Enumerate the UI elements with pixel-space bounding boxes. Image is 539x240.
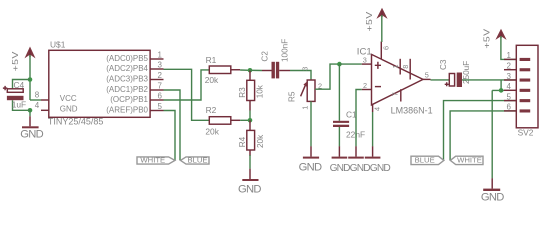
svg-text:8: 8 [401, 65, 410, 69]
label U$1 [50, 40, 66, 50]
svg-text:(AREF)PB0: (AREF)PB0 [106, 106, 148, 115]
label GND (bottom right) [481, 192, 504, 204]
op-amp pin 1 (gain) [399, 59, 401, 75]
ground symbol (R4) [242, 169, 258, 181]
pin name (ADC0)PB5 [106, 54, 148, 63]
wire +5V to pin 6 [381, 15, 383, 42]
label R1 [206, 55, 217, 65]
svg-text:1: 1 [158, 51, 163, 60]
ground symbol (C1) [332, 146, 348, 158]
svg-text:R5: R5 [287, 91, 296, 102]
capacitor C4 [3, 86, 24, 100]
flag WHITE (left) [137, 156, 175, 165]
resistor R2 [209, 117, 240, 125]
pin name (ADC2)PB4 [106, 64, 148, 73]
svg-text:4: 4 [35, 101, 40, 110]
capacitor C2 [262, 62, 290, 79]
pin name (ADC1)PB2 [106, 85, 148, 94]
wire op-amp output to C3 [431, 79, 450, 81]
wire pin4 node to SV2 [501, 89, 504, 91]
pin 6 stub [150, 99, 163, 101]
svg-text:C3: C3 [439, 59, 448, 70]
pin number 1 [158, 51, 163, 60]
svg-text:+5V: +5V [483, 28, 493, 48]
svg-text:R3: R3 [238, 87, 247, 98]
wire +5V vertical rail (left) [29, 55, 31, 100]
resistor R1 [209, 66, 240, 74]
svg-text:GNDGNDGND: GNDGNDGND [330, 163, 391, 174]
pin number 2 [158, 71, 163, 80]
wire C4 bottom lead [13, 100, 31, 110]
svg-text:+5V: +5V [11, 51, 21, 71]
svg-text:3: 3 [158, 61, 163, 70]
node junction C4 top [28, 77, 33, 82]
pin 8 stub [41, 99, 49, 101]
svg-text:100nF: 100nF [281, 39, 290, 62]
wire C1 to ground [338, 127, 340, 146]
label TINY25/45/85 [48, 117, 104, 127]
label GND x3 (C1, IC1 pin2, IC1 pin4 grounds) [330, 163, 391, 174]
node junction R1/R3/C2 [248, 68, 253, 73]
node junction C1/op-amp input [337, 62, 342, 67]
svg-text:1: 1 [391, 65, 400, 69]
pin number 2 (IC1) [363, 81, 367, 90]
wire branch to pin 4 node [492, 80, 501, 91]
svg-text:C2: C2 [261, 51, 270, 62]
svg-text:6: 6 [158, 92, 163, 101]
label C4 [14, 80, 25, 90]
wire C2 to R5 [290, 71, 311, 81]
label 250uF (rotated) [462, 61, 471, 84]
SV2 pin 6 [504, 109, 530, 112]
op-amp pin 6 stub [380, 42, 382, 60]
op-amp IC1 triangle [372, 54, 424, 105]
supply symbol +5V (left) [25, 47, 36, 59]
ground symbol (IC1 pin2) [348, 146, 364, 158]
connector SV2 box [516, 45, 538, 128]
svg-text:C4: C4 [14, 80, 25, 90]
svg-text:3: 3 [363, 55, 367, 64]
resistor R4 [247, 120, 255, 156]
svg-text:WHITE: WHITE [140, 156, 165, 165]
svg-text:2: 2 [158, 71, 163, 80]
resistor R3 [247, 70, 255, 110]
op-amp pin 7 (bypass) [400, 89, 402, 101]
wire node to C2 [250, 69, 262, 71]
pin number 3 (SV2) [507, 72, 512, 81]
node junction SV2 pin 4 [499, 88, 504, 93]
label GND (R4) [238, 183, 261, 195]
label 10k (rotated) [255, 84, 264, 98]
svg-text:R4: R4 [238, 136, 247, 147]
pin name (OCP)PB1 [110, 95, 148, 104]
pin number 8 [35, 91, 40, 100]
svg-text:BLUE: BLUE [415, 156, 435, 165]
wire pin5 to WHITE flag [164, 111, 176, 161]
label LM386N-1 [391, 105, 433, 115]
label 100nF (rotated) [281, 39, 290, 62]
ground symbol (bottom right) [483, 178, 500, 191]
svg-text:1: 1 [301, 106, 310, 110]
op-amp minus mark [375, 86, 381, 88]
svg-text:BLUE: BLUE [187, 156, 207, 165]
pin number 5 (IC1) [425, 71, 429, 80]
wire pin4 to ground [372, 112, 374, 146]
wire VCC pin 8 [30, 99, 41, 101]
pin number 2 (R5) [318, 82, 322, 91]
op-amp pin 3 stub [362, 63, 372, 65]
svg-text:SV2: SV2 [518, 128, 534, 138]
wire pin2 to ground [356, 90, 362, 147]
supply symbol +5V (right) [495, 29, 506, 40]
pin number 6 (SV2) [507, 103, 512, 112]
wire R4 to ground [249, 155, 251, 169]
svg-text:R1: R1 [206, 55, 217, 65]
label R4 (rotated) [238, 136, 247, 147]
pin name (AREF)PB0 [106, 106, 148, 115]
wire WHITE flag to SV2 pin 6 [450, 111, 516, 160]
svg-text:R2: R2 [206, 105, 217, 115]
supply symbol +5V (op-amp) [376, 8, 387, 19]
svg-text:VCC: VCC [60, 94, 77, 103]
pin number 1 (IC1, rotated) [391, 65, 400, 69]
wire GND drop (left) [29, 110, 31, 116]
svg-text:8: 8 [35, 91, 40, 100]
wire pin7 to BLUE flag [164, 90, 181, 160]
pin number 3 (R5, rotated) [301, 67, 310, 71]
wire node to op-amp pin3 [339, 63, 361, 65]
pin 1 stub [150, 58, 163, 60]
label +5V (right, rotated) [483, 28, 493, 48]
svg-text:4: 4 [507, 82, 512, 91]
wire +5V to SV2 pin 1 [501, 36, 516, 59]
label R3 (rotated) [238, 87, 247, 98]
pin number 7 (IC1, rotated) [391, 92, 400, 96]
svg-text:6: 6 [382, 46, 391, 50]
svg-text:GND: GND [60, 104, 78, 113]
label 20k (R2) [205, 126, 219, 136]
pin number 1 (SV2) [507, 51, 512, 60]
wire node to C1 [338, 64, 340, 121]
pin number 5 (SV2) [507, 92, 512, 101]
op-amp pin 5 stub [423, 78, 431, 80]
label GND (left) [20, 129, 43, 141]
flag WHITE (right) [450, 156, 483, 165]
IC U$1 box [49, 50, 150, 117]
wire pin3 to R2 [164, 69, 210, 120]
wire R5 bottom to ground [310, 101, 312, 146]
node junction R2/R3/R4 [248, 118, 253, 123]
svg-text:WHITE: WHITE [457, 156, 482, 165]
pin 7 stub [150, 89, 163, 91]
svg-text:U$1: U$1 [50, 40, 66, 50]
pin number 7 [158, 82, 163, 91]
svg-text:6: 6 [507, 103, 512, 112]
wire BLUE flag to SV2 pin 5 [444, 101, 517, 161]
op-amp pin 4 stub [372, 104, 374, 112]
svg-text:(ADC0)PB5: (ADC0)PB5 [106, 54, 148, 63]
svg-text:+5V: +5V [365, 11, 375, 31]
SV2 pin 3 [504, 79, 530, 82]
wire R5 wiper to op-amp input [315, 64, 339, 89]
label 20k (R1) [205, 75, 219, 85]
svg-text:3: 3 [507, 72, 512, 81]
pin 2 stub [150, 79, 163, 81]
pin number 2 (SV2) [507, 62, 512, 71]
pin number 3 (IC1) [363, 55, 367, 64]
pin number 8 (IC1, rotated) [401, 65, 410, 69]
svg-text:(ADC2)PB4: (ADC2)PB4 [106, 64, 148, 73]
svg-text:7: 7 [158, 82, 163, 91]
wire R2 to node [240, 119, 250, 121]
svg-text:4: 4 [372, 107, 381, 111]
op-amp pin 2 stub [362, 89, 372, 91]
pin 3 stub [150, 68, 163, 70]
svg-text:GND: GND [481, 192, 504, 204]
label C3 (rotated) [439, 59, 448, 70]
label SV2 [518, 128, 534, 138]
svg-text:LM386N-1: LM386N-1 [391, 105, 433, 115]
SV2 pin 5 [504, 99, 530, 102]
pin number 4 (IC1, rotated) [372, 107, 381, 111]
label IC1 [357, 46, 372, 57]
label 1uF [12, 99, 26, 109]
svg-text:3: 3 [301, 67, 310, 71]
label C2 (rotated) [261, 51, 270, 62]
svg-text:TINY25/45/85: TINY25/45/85 [48, 117, 104, 127]
pin number 3 [158, 61, 163, 70]
svg-text:GND: GND [20, 129, 43, 141]
svg-text:10k: 10k [255, 84, 264, 98]
svg-text:(OCP)PB1: (OCP)PB1 [110, 95, 148, 104]
pin number 1 (R5, rotated) [301, 106, 310, 110]
label +5V (op-amp, rotated) [365, 11, 375, 31]
svg-text:2: 2 [507, 62, 512, 71]
potentiometer R5 [301, 80, 315, 101]
svg-text:20k: 20k [205, 75, 219, 85]
ground symbol (R5) [303, 146, 319, 158]
svg-text:20k: 20k [205, 126, 219, 136]
svg-text:1uF: 1uF [12, 99, 26, 109]
SV2 pin 2 [504, 68, 530, 71]
svg-text:2: 2 [363, 81, 367, 90]
op-amp pin 8 (gain) [409, 59, 411, 80]
wire C4 top lead [13, 80, 31, 89]
label 20k (R4, rotated) [256, 134, 265, 148]
node junction C4 bottom [28, 108, 33, 113]
svg-text:1: 1 [507, 51, 512, 60]
flag BLUE (right) [411, 156, 444, 165]
SV2 pin 4 [504, 89, 530, 92]
pin name VCC [60, 94, 77, 103]
flag BLUE (left) [181, 156, 210, 165]
op-amp plus mark [375, 62, 381, 69]
capacitor C1 [333, 121, 349, 127]
wire R1 to node [240, 69, 250, 71]
svg-text:GND: GND [238, 183, 261, 195]
pin 4 stub (IC left) [41, 109, 49, 111]
pin number 4 (SV2) [507, 82, 512, 91]
pin number 6 [158, 92, 163, 101]
label R5 (rotated) [287, 91, 296, 102]
label GND (R5) [299, 162, 322, 174]
svg-text:20k: 20k [256, 134, 265, 148]
svg-text:GND: GND [299, 162, 322, 174]
label R2 [206, 105, 217, 115]
SV2 pin 1 [504, 58, 530, 61]
svg-text:(ADC3)PB3: (ADC3)PB3 [106, 75, 148, 84]
pin number 6 (IC1, rotated) [382, 46, 391, 50]
pin 5 stub [150, 110, 163, 112]
label +5V (left, rotated) [11, 51, 21, 71]
wire pin6 to R1 [164, 70, 210, 100]
pin number 4 [35, 101, 40, 110]
label C1 [346, 110, 357, 120]
capacitor C3 [445, 73, 462, 88]
svg-text:5: 5 [507, 92, 512, 101]
svg-text:(ADC1)PB2: (ADC1)PB2 [106, 85, 148, 94]
svg-text:5: 5 [158, 102, 163, 111]
pin name (ADC3)PB3 [106, 75, 148, 84]
ground symbol (IC1 pin4) [365, 146, 381, 158]
wire C3 to SV2 pin 3 [462, 79, 516, 81]
pin number 5 [158, 102, 163, 111]
svg-text:5: 5 [425, 71, 429, 80]
ground symbol (left) [22, 116, 39, 128]
wire R3 to node [249, 111, 251, 121]
pin name GND [60, 104, 78, 113]
svg-text:7: 7 [391, 92, 400, 96]
wire to ground (bottom right) [491, 90, 493, 178]
label 22nF [346, 130, 365, 140]
